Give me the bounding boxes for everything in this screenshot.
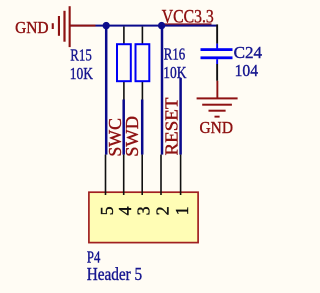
svg-text:GND: GND [200, 118, 234, 137]
svg-text:RESET: RESET [162, 98, 182, 156]
svg-text:C24: C24 [234, 43, 263, 62]
svg-text:Header 5: Header 5 [87, 264, 143, 284]
svg-text:2: 2 [153, 206, 173, 215]
svg-text:SWD: SWD [122, 116, 142, 157]
svg-text:R16: R16 [164, 45, 185, 64]
svg-text:GND: GND [15, 18, 49, 37]
svg-text:4: 4 [115, 206, 135, 215]
svg-text:5: 5 [97, 206, 117, 215]
svg-text:3: 3 [134, 206, 154, 215]
svg-text:1: 1 [172, 206, 192, 215]
svg-text:R15: R15 [70, 46, 92, 65]
svg-text:10K: 10K [163, 63, 187, 82]
svg-text:104: 104 [235, 61, 259, 80]
svg-text:VCC3.3: VCC3.3 [162, 6, 214, 27]
svg-text:10K: 10K [70, 64, 94, 83]
